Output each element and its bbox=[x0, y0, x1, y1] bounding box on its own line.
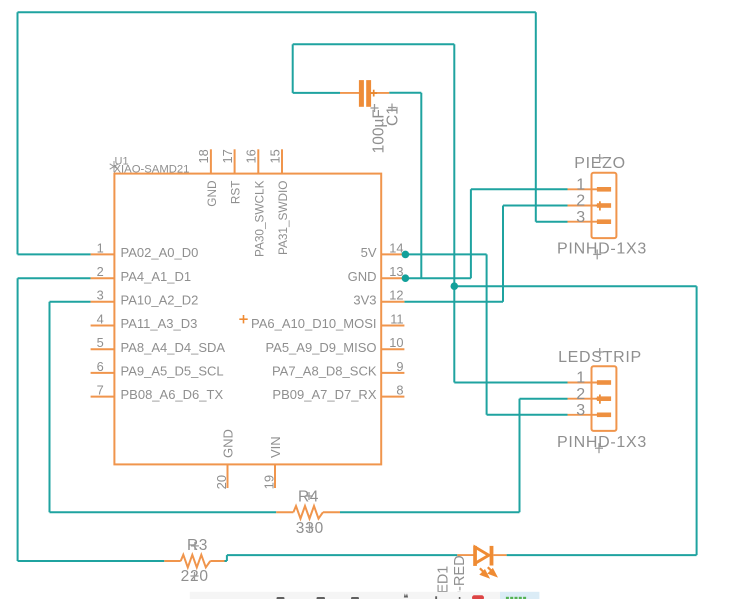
wire PA02 top loop seg3 bbox=[18, 11, 536, 13]
svg-text:PA4_A1_D1: PA4_A1_D1 bbox=[121, 269, 192, 284]
wire C1 left plate loop seg3 bbox=[293, 43, 455, 45]
origin cross LEDSTRIP pkg bbox=[595, 443, 603, 453]
svg-text:20: 20 bbox=[214, 475, 229, 489]
LEDSTRIP pin 1 lead bbox=[568, 382, 598, 384]
svg-text:PINHD-1X3: PINHD-1X3 bbox=[557, 240, 647, 257]
resistor R3 bbox=[164, 537, 224, 585]
banner red button bbox=[472, 595, 484, 599]
pin 15 stub bbox=[281, 149, 283, 174]
wire net PA02 top loop bbox=[18, 12, 568, 254]
wire PA10 to R4 seg3 bbox=[50, 511, 277, 513]
banner blue area bbox=[500, 592, 539, 599]
junction dot GND pin13 bbox=[402, 274, 410, 282]
origin cross LEDSTRIP name bbox=[596, 348, 604, 356]
PIEZO pin 2 origin cross bbox=[596, 201, 604, 210]
wire PA4 to R3 seg2 bbox=[17, 278, 19, 561]
LED LED1 bbox=[436, 546, 507, 599]
LEDSTRIP body bbox=[592, 366, 617, 431]
svg-text:10: 10 bbox=[389, 335, 403, 350]
pin 5 stub bbox=[91, 348, 115, 350]
resistor R4 bbox=[276, 488, 340, 536]
wire 5V to LEDSTRIP pin3 seg2 bbox=[486, 254, 488, 414]
svg-text:PA02_A0_D0: PA02_A0_D0 bbox=[121, 245, 199, 260]
svg-text:C1: C1 bbox=[384, 106, 401, 126]
R4 right lead bbox=[323, 511, 340, 513]
LED1 triangle bbox=[475, 547, 489, 563]
wire C1 right plate to GND seg1 bbox=[389, 92, 421, 94]
pin 1 stub bbox=[91, 253, 115, 255]
svg-text:14: 14 bbox=[389, 240, 403, 255]
banner background bbox=[190, 592, 500, 599]
wire net GND to PIEZO pin1 bbox=[404, 189, 567, 278]
wire 3V3 to PIEZO pin2 seg3 bbox=[503, 205, 568, 207]
C1 left lead bbox=[340, 92, 359, 94]
wire net C1 right plate to GND bbox=[389, 93, 421, 278]
origin cross U1 bbox=[239, 315, 247, 323]
svg-text:PA10_A2_D2: PA10_A2_D2 bbox=[121, 292, 199, 307]
pin 16 stub bbox=[257, 149, 259, 174]
pin 14 stub bbox=[381, 253, 404, 255]
wire 3V3 to PIEZO pin2 seg1 bbox=[404, 301, 503, 303]
wire cathode loop to LED seg2 bbox=[696, 286, 698, 555]
wire PA02 top loop seg2 bbox=[17, 12, 19, 254]
wire net cathode loop to LED bbox=[454, 286, 696, 555]
wire net 3V3 to PIEZO pin2 bbox=[404, 206, 567, 302]
pin 13 stub bbox=[381, 277, 404, 279]
svg-text:3: 3 bbox=[576, 402, 585, 419]
svg-text:GND: GND bbox=[348, 269, 377, 284]
LED1 anode lead bbox=[457, 554, 474, 556]
pin 2 stub bbox=[91, 277, 115, 279]
origin cross R4 value bbox=[306, 524, 314, 532]
wire C1 left plate loop seg1 bbox=[293, 92, 340, 94]
pin 18 stub bbox=[210, 149, 212, 174]
C1 polarity plus bbox=[370, 90, 377, 97]
junction dot 5V pin14 bbox=[402, 251, 410, 259]
svg-text:VIN: VIN bbox=[268, 436, 283, 458]
svg-text:PA11_A3_D3: PA11_A3_D3 bbox=[121, 316, 198, 331]
wire R3 to LED anode seg1 bbox=[225, 560, 227, 562]
pin 17 stub bbox=[234, 149, 236, 174]
LED1 emission arrow 2 bbox=[488, 567, 496, 575]
wire net PA4 to R3 bbox=[18, 278, 165, 561]
svg-text:2: 2 bbox=[97, 264, 104, 279]
LED1 anode bar bbox=[473, 546, 477, 566]
wire cathode loop to LED seg1 bbox=[454, 285, 696, 287]
svg-text:7: 7 bbox=[97, 383, 104, 398]
C1 right lead bbox=[371, 92, 389, 94]
origin cross R3 name bbox=[191, 542, 199, 550]
svg-text:13: 13 bbox=[389, 264, 403, 279]
LEDSTRIP pin 2 lead bbox=[568, 398, 598, 400]
wire R4 to LEDSTRIP pin2 seg1 bbox=[340, 511, 520, 513]
wire net R4 to LEDSTRIP pin2 bbox=[340, 399, 568, 513]
R3 zigzag bbox=[181, 555, 211, 568]
wire PA02 top loop seg1 bbox=[18, 253, 91, 255]
banner glyph blobs dark bbox=[277, 593, 461, 599]
wire C1 left plate loop seg2 bbox=[292, 44, 294, 93]
pin 20 stub bbox=[227, 464, 229, 488]
LEDSTRIP pin 2 origin cross bbox=[596, 395, 604, 404]
R3 left lead bbox=[164, 560, 180, 562]
LEDSTRIP pin 3 pad bbox=[597, 413, 611, 418]
C1 right plate bbox=[366, 80, 371, 107]
svg-text:5V: 5V bbox=[361, 245, 377, 260]
svg-text:11: 11 bbox=[390, 311, 403, 326]
wire net PA10 to R4 bbox=[50, 302, 277, 512]
svg-text:PA9_A5_D5_SCL: PA9_A5_D5_SCL bbox=[121, 364, 224, 379]
wire C1 left plate loop seg5 bbox=[454, 382, 567, 384]
svg-text:19: 19 bbox=[262, 475, 277, 489]
LED1 cathode lead bbox=[493, 554, 506, 556]
pin 7 stub bbox=[91, 396, 115, 398]
wire PA10 to R4 seg2 bbox=[49, 302, 51, 512]
C1 left plate bbox=[359, 80, 364, 107]
wire PA4 to R3 seg3 bbox=[18, 560, 165, 562]
wire PA10 to R4 seg1 bbox=[50, 301, 91, 303]
svg-text:PA30_SWCLK: PA30_SWCLK bbox=[252, 180, 266, 257]
wire GND to PIEZO pin1 seg2 bbox=[470, 189, 472, 278]
PIEZO pin 2 pad bbox=[597, 203, 611, 208]
svg-text:12: 12 bbox=[389, 288, 403, 303]
LEDSTRIP pin 2 pad bbox=[597, 396, 611, 401]
origin star U1 bbox=[110, 161, 119, 172]
svg-text:4: 4 bbox=[97, 311, 104, 326]
wire net 5V to LEDSTRIP pin3 bbox=[404, 254, 567, 414]
pin 6 stub bbox=[91, 372, 115, 374]
origin cross R3 value bbox=[191, 572, 199, 580]
svg-text:2: 2 bbox=[576, 386, 585, 403]
svg-text:6: 6 bbox=[97, 359, 104, 374]
svg-text:2: 2 bbox=[576, 193, 585, 210]
wire GND to PIEZO pin1 seg3 bbox=[471, 188, 568, 190]
R4 zigzag bbox=[293, 506, 323, 519]
svg-text:15: 15 bbox=[267, 149, 282, 163]
svg-text:1: 1 bbox=[576, 177, 585, 194]
wire 3V3 to PIEZO pin2 seg2 bbox=[502, 206, 504, 302]
wire GND to PIEZO pin1 seg1 bbox=[404, 277, 471, 279]
wire R4 to LEDSTRIP pin2 seg3 bbox=[520, 398, 568, 400]
pin 19 stub bbox=[274, 464, 276, 488]
bottom cropped banner bbox=[190, 592, 540, 599]
svg-text:PA7_A8_D8_SCK: PA7_A8_D8_SCK bbox=[272, 364, 377, 379]
svg-text:PA5_A9_D9_MISO: PA5_A9_D9_MISO bbox=[265, 340, 376, 355]
IC body U1 bbox=[114, 174, 381, 465]
R4 left lead bbox=[276, 511, 293, 513]
wire R3 to LED anode seg3 bbox=[227, 554, 457, 556]
wire PA02 top loop seg4 bbox=[535, 12, 537, 221]
LED1 cathode bar bbox=[490, 546, 494, 566]
IC U1 XIAO-SAMD21 bbox=[91, 149, 405, 489]
LEDSTRIP pin 3 lead bbox=[568, 414, 598, 416]
svg-text:PB08_A6_D6_TX: PB08_A6_D6_TX bbox=[121, 387, 224, 402]
origin cross C1 bbox=[388, 104, 396, 112]
PIEZO pin 1 lead bbox=[568, 188, 598, 190]
svg-text:17: 17 bbox=[220, 149, 235, 163]
origin cross PIEZO name bbox=[596, 154, 604, 162]
svg-text:PA8_A4_D4_SDA: PA8_A4_D4_SDA bbox=[121, 340, 226, 355]
svg-text:PA31_SWDIO: PA31_SWDIO bbox=[276, 181, 290, 256]
wire PA02 top loop seg5 bbox=[536, 221, 568, 223]
svg-text:XIAO-SAMD21: XIAO-SAMD21 bbox=[114, 164, 190, 176]
svg-text:RST: RST bbox=[229, 181, 243, 205]
banner green dots bbox=[506, 597, 526, 599]
pin 8 stub bbox=[381, 396, 404, 398]
svg-text:GND: GND bbox=[221, 429, 236, 458]
svg-text:16: 16 bbox=[244, 149, 259, 163]
wire cathode loop to LED seg3 bbox=[507, 554, 697, 556]
origin cross R4 name bbox=[305, 492, 313, 500]
svg-text:3V3: 3V3 bbox=[353, 292, 376, 307]
wire net C1 left plate loop bbox=[293, 44, 568, 382]
wire PA4 to R3 seg1 bbox=[18, 277, 91, 279]
junction node cathode net bbox=[451, 282, 459, 290]
wire 5V to LEDSTRIP pin3 seg1 bbox=[404, 253, 486, 255]
PIEZO pin 3 lead bbox=[568, 221, 598, 223]
wire R3 to LED anode seg2 bbox=[226, 555, 228, 561]
pin 11 stub bbox=[381, 325, 404, 327]
origin cross 100uF bbox=[371, 104, 379, 112]
wire R4 to LEDSTRIP pin2 seg2 bbox=[519, 399, 521, 513]
R3 right lead bbox=[210, 560, 224, 562]
svg-text:1: 1 bbox=[97, 240, 104, 255]
PIEZO pin 2 lead bbox=[568, 205, 598, 207]
PIEZO pin 3 pad bbox=[597, 219, 611, 224]
wire C1 right plate to GND seg2 bbox=[420, 93, 422, 278]
svg-text:3: 3 bbox=[97, 288, 104, 303]
wire C1 left plate loop seg4 bbox=[453, 44, 455, 382]
svg-text:3: 3 bbox=[576, 209, 585, 226]
pin 12 stub bbox=[381, 301, 404, 303]
LEDSTRIP pin 1 pad bbox=[597, 380, 611, 385]
svg-text:PB09_A7_D7_RX: PB09_A7_D7_RX bbox=[272, 387, 376, 402]
pin 9 stub bbox=[381, 372, 404, 374]
svg-text:5: 5 bbox=[97, 335, 104, 350]
connector LEDSTRIP PINHD-1X3 bbox=[557, 348, 647, 453]
PIEZO pin 1 pad bbox=[597, 187, 611, 192]
origin cross PIEZO pkg bbox=[593, 249, 601, 259]
LED1 emission arrow 1 bbox=[480, 568, 488, 576]
svg-text:8: 8 bbox=[396, 383, 403, 398]
svg-text:GND: GND bbox=[205, 181, 219, 207]
pin 10 stub bbox=[381, 348, 404, 350]
pin 4 stub bbox=[91, 325, 115, 327]
wire 5V to LEDSTRIP pin3 seg3 bbox=[487, 414, 568, 416]
pin 3 stub bbox=[91, 301, 115, 303]
wire net R3 to LED anode bbox=[225, 555, 458, 561]
capacitor C1 bbox=[340, 80, 401, 153]
connector PIEZO PINHD-1X3 bbox=[557, 154, 647, 259]
PIEZO body bbox=[592, 173, 617, 238]
svg-text:18: 18 bbox=[196, 149, 211, 163]
svg-text:PA6_A10_D10_MOSI: PA6_A10_D10_MOSI bbox=[251, 316, 377, 331]
svg-text:9: 9 bbox=[396, 359, 403, 374]
svg-text:1: 1 bbox=[576, 370, 585, 387]
